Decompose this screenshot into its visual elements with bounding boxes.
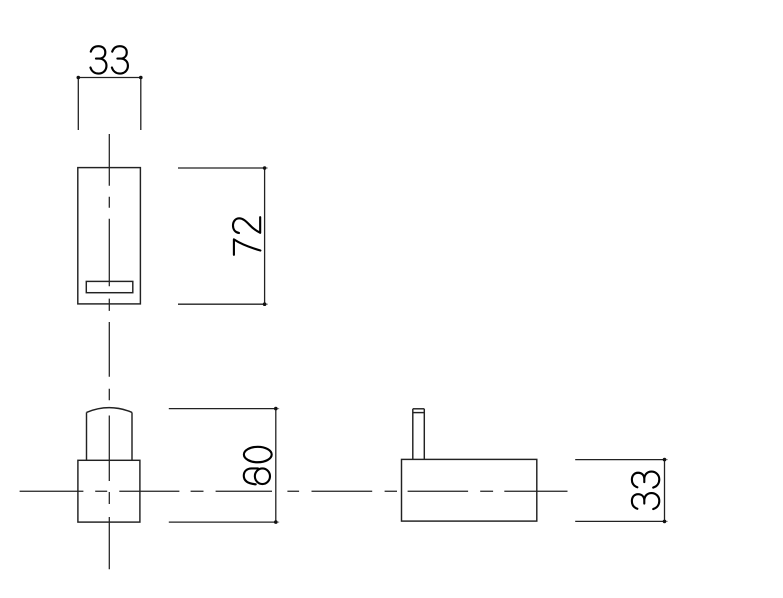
side view pin left edge bbox=[412, 409, 414, 460]
dim 72: top extension line bbox=[178, 167, 265, 169]
side view pin top edge bbox=[413, 408, 425, 410]
dim 33 right: dimension line bbox=[664, 460, 666, 522]
dim 33 top: dimension line bbox=[78, 77, 141, 79]
front view body rectangle bbox=[78, 168, 141, 304]
side view body rectangle bbox=[402, 459, 537, 521]
dim 60: top extension line bbox=[169, 408, 276, 410]
dim 33 right: bottom extension line bbox=[575, 520, 664, 522]
dim 60: extension overshoots bbox=[276, 409, 279, 522]
top view neck right edge bbox=[131, 412, 133, 460]
dim text 33 (right, rotated) bbox=[632, 472, 659, 509]
top view base rectangle bbox=[78, 460, 140, 522]
dim 33 right: top extension line bbox=[575, 459, 664, 461]
dim 60: dimension line bbox=[275, 409, 277, 522]
top view neck left edge bbox=[86, 412, 88, 460]
side view pin cap line bbox=[413, 412, 425, 414]
dim 33 top: left extension line bbox=[77, 78, 79, 131]
dim 72: bottom extension line bbox=[178, 303, 265, 305]
dim text 33 (top) bbox=[90, 46, 127, 73]
dim 72: extension overshoots bbox=[265, 168, 268, 304]
front view inner slot rectangle bbox=[86, 281, 133, 292]
horizontal centerline bbox=[20, 490, 568, 492]
vertical centerline bbox=[108, 134, 110, 569]
dim 33 top: right extension line bbox=[140, 78, 142, 131]
dim 72: end dots bbox=[263, 166, 267, 170]
dim 33 right: extension overshoots bbox=[665, 460, 668, 522]
dim text 60 (rotated) bbox=[244, 447, 272, 485]
side view pin right edge bbox=[423, 409, 425, 460]
dim 33 top: end dots bbox=[77, 76, 81, 80]
top view neck arched top bbox=[87, 408, 133, 413]
dim 60: bottom extension line bbox=[169, 521, 276, 523]
dim 72: dimension line bbox=[264, 168, 266, 304]
dim 33 right: end dots bbox=[663, 458, 667, 462]
dim text 72 (rotated) bbox=[233, 217, 260, 255]
dim 60: end dots bbox=[274, 407, 278, 411]
